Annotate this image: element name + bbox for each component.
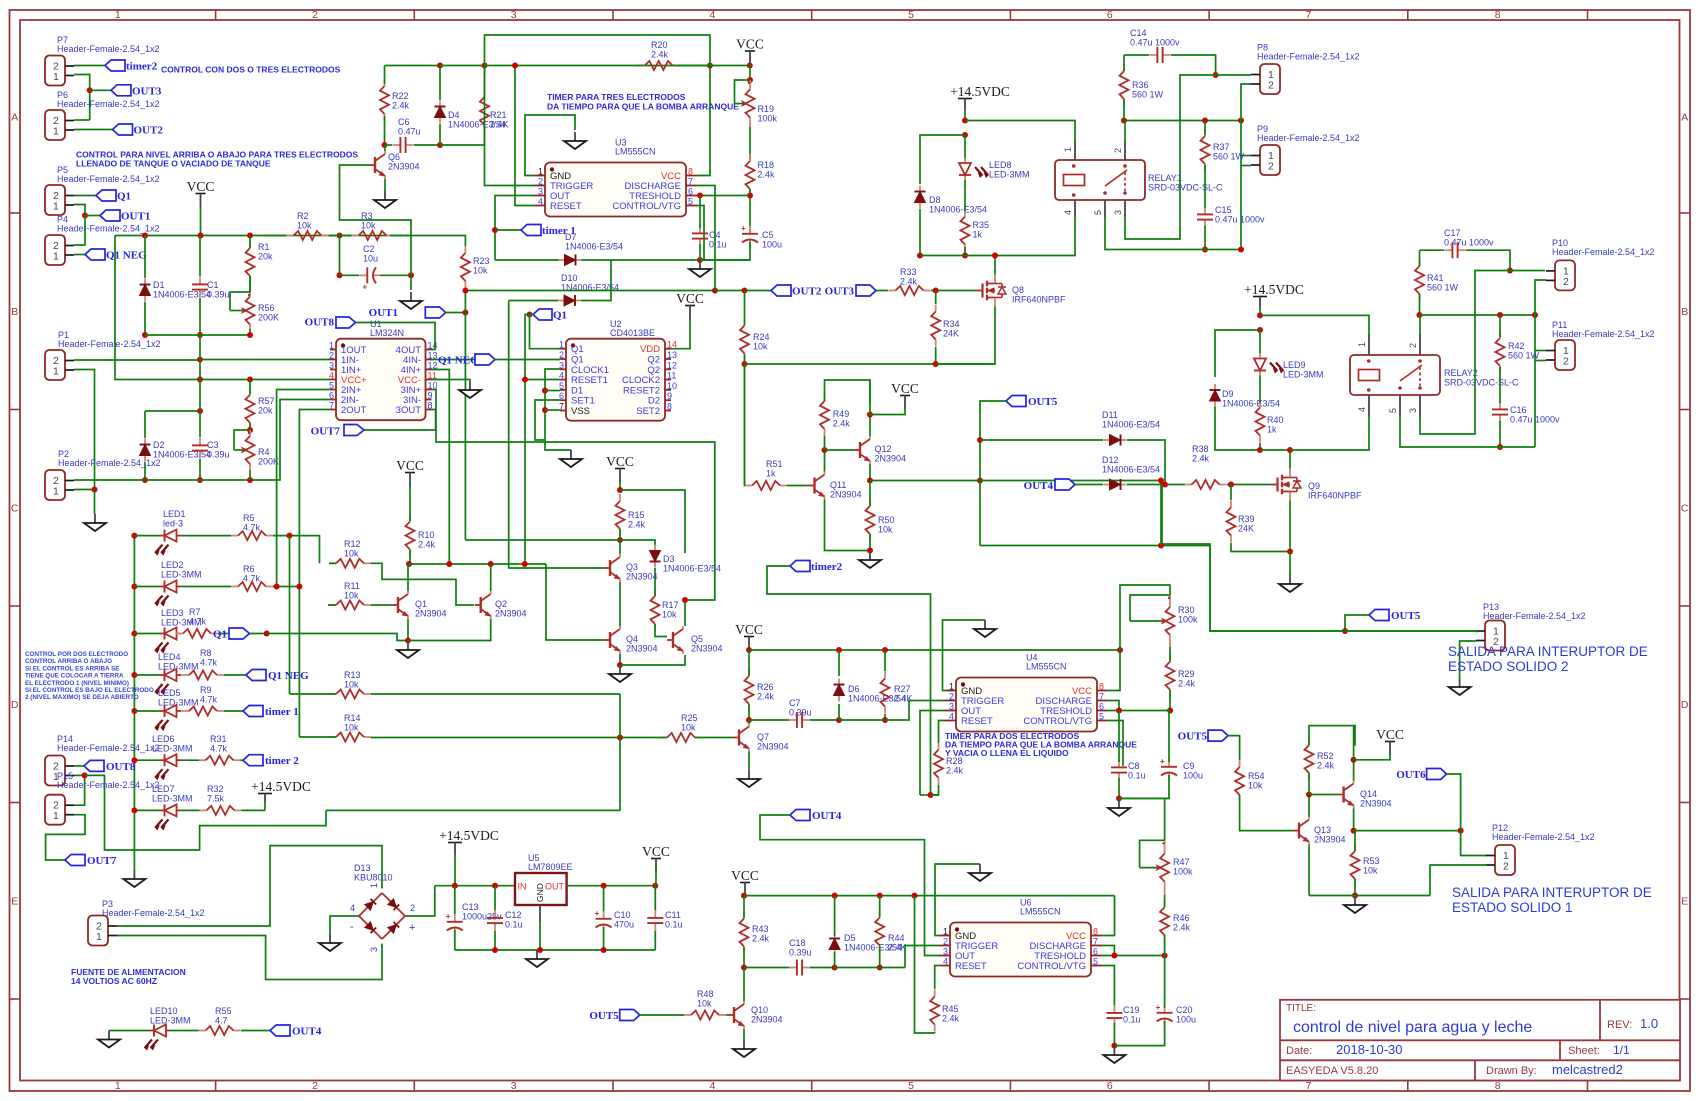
- svg-text:4: 4: [709, 9, 715, 21]
- svg-text:CD4013BE: CD4013BE: [610, 328, 655, 338]
- node junction: [131, 708, 137, 714]
- svg-text:1: 1: [53, 251, 59, 263]
- svg-text:2: 2: [1408, 343, 1418, 348]
- wire: [264, 235, 286, 237]
- net flag OUT5: [1006, 396, 1026, 407]
- wire power net right: [326, 809, 620, 811]
- svg-text:470u: 470u: [614, 920, 634, 930]
- svg-text:R21: R21: [490, 110, 507, 120]
- svg-text:6: 6: [688, 187, 693, 197]
- svg-text:2N3904: 2N3904: [757, 742, 789, 752]
- svg-text:OUT2: OUT2: [792, 286, 822, 298]
- svg-text:2: 2: [559, 350, 564, 360]
- node junction: [197, 332, 203, 338]
- wire: [182, 535, 232, 537]
- node junction: [1532, 312, 1538, 318]
- svg-text:SRD-03VDC-SL-C: SRD-03VDC-SL-C: [1444, 378, 1519, 388]
- svg-text:Q1 NEG: Q1 NEG: [438, 354, 479, 366]
- wire: [1476, 631, 1478, 633]
- node junction: [832, 965, 838, 971]
- ground: [619, 665, 621, 674]
- ground: [574, 132, 576, 141]
- wire: [1308, 845, 1310, 896]
- wire: [748, 704, 750, 720]
- wire: [1241, 155, 1251, 157]
- svg-text:20k: 20k: [258, 252, 273, 262]
- svg-text:2: 2: [1563, 356, 1569, 368]
- wire: [1353, 726, 1355, 760]
- svg-text:5: 5: [1099, 712, 1104, 722]
- wire: [939, 721, 946, 744]
- svg-text:4: 4: [329, 371, 334, 381]
- ground: [410, 292, 412, 301]
- node junction: [1507, 268, 1513, 274]
- wire: [1241, 84, 1251, 250]
- svg-text:10k: 10k: [473, 266, 488, 276]
- svg-text:0.47u 1000v: 0.47u 1000v: [1215, 215, 1265, 225]
- wire: [743, 947, 745, 968]
- wire: [494, 886, 496, 910]
- wire P14 pin1: [74, 775, 85, 805]
- svg-text:Q8: Q8: [1012, 285, 1024, 295]
- svg-text:Header-Female-2.54_1x2: Header-Female-2.54_1x2: [1483, 611, 1586, 621]
- wire: [1499, 315, 1501, 337]
- wire: [1259, 330, 1261, 354]
- timer U4 LM555CN: [956, 678, 1097, 732]
- svg-text:1k: 1k: [766, 469, 776, 479]
- wire U2 vss: [545, 409, 560, 411]
- node junction: [742, 361, 748, 367]
- svg-text:3: 3: [511, 9, 517, 21]
- wire: [1127, 440, 1165, 485]
- svg-text:Q1 NEG: Q1 NEG: [268, 670, 309, 682]
- wire: [371, 604, 392, 606]
- svg-text:2: 2: [949, 692, 954, 702]
- wire: [1075, 484, 1103, 486]
- svg-text:5: 5: [908, 1080, 914, 1092]
- wire: [619, 654, 621, 665]
- svg-text:C8: C8: [1128, 761, 1140, 771]
- net flag Q1 NEG mid: [432, 359, 476, 361]
- wire: [241, 759, 244, 761]
- node junction: [741, 965, 747, 971]
- svg-text:EL ELECTRODO 1 (NIVEL MINIMO): EL ELECTRODO 1 (NIVEL MINIMO): [25, 680, 129, 687]
- wire: [1169, 690, 1171, 711]
- node junction: [1116, 708, 1122, 714]
- net flag Q1 top: [533, 309, 552, 320]
- svg-text:7: 7: [1306, 1080, 1312, 1092]
- wire: [749, 189, 751, 234]
- wire out4 y795: [920, 794, 931, 796]
- wire U4 out pin3: [920, 711, 945, 796]
- svg-text:C18: C18: [789, 938, 806, 948]
- wire: [74, 129, 113, 131]
- node junction: [836, 647, 842, 653]
- node junction: [1202, 118, 1208, 124]
- wire: [224, 710, 243, 712]
- wire: [74, 75, 90, 121]
- svg-text:6: 6: [329, 391, 334, 401]
- svg-text:R38: R38: [1192, 444, 1209, 454]
- svg-text:9: 9: [667, 391, 672, 401]
- wire: [1353, 760, 1355, 781]
- svg-text:Q1 NEG: Q1 NEG: [106, 250, 147, 262]
- svg-text:R28: R28: [946, 756, 963, 766]
- wire U3 pin5 jog: [697, 206, 704, 261]
- svg-text:C20: C20: [1176, 1005, 1193, 1015]
- wire: [715, 290, 745, 292]
- wire U6 pin8: [1102, 896, 1115, 936]
- node junction: [747, 77, 753, 83]
- wire: [744, 364, 746, 485]
- wire: [1308, 795, 1310, 817]
- wire OUT4 route to U6 out: [760, 815, 939, 956]
- op-amp U1 LM324N: [336, 339, 426, 421]
- node junction: [1257, 327, 1263, 333]
- ground: [329, 934, 331, 943]
- svg-text:4: 4: [943, 957, 948, 967]
- svg-text:1N4006-E3/54: 1N4006-E3/54: [1102, 420, 1160, 430]
- node junction: [617, 487, 623, 493]
- wire: [934, 1032, 936, 1033]
- svg-text:EASYEDA V5.8.20: EASYEDA V5.8.20: [1286, 1065, 1378, 1077]
- wire loop: [824, 433, 826, 450]
- svg-text:560 1W: 560 1W: [1508, 351, 1540, 361]
- svg-text:10k: 10k: [344, 591, 359, 601]
- wire: [603, 886, 605, 911]
- svg-text:B: B: [1681, 306, 1688, 318]
- wire pin7 U3 down: [697, 186, 715, 291]
- svg-text:A: A: [1681, 112, 1688, 124]
- svg-text:Header-Female-2.54_1x2: Header-Female-2.54_1x2: [102, 908, 205, 918]
- node junction: [962, 118, 968, 124]
- wire source Q9: [1289, 501, 1291, 552]
- relay pin 4: [1074, 200, 1076, 218]
- svg-text:C2: C2: [363, 244, 375, 254]
- wire vcc stem: [200, 207, 202, 236]
- relay2 pin 2: [1419, 334, 1421, 355]
- wire: [74, 254, 85, 256]
- node junction: [198, 233, 204, 239]
- svg-text:C5: C5: [762, 230, 774, 240]
- net flag OUT5 p13: [1369, 610, 1389, 621]
- wire: [267, 634, 408, 641]
- svg-text:C17: C17: [1444, 228, 1461, 238]
- wire pin12 down to rail: [432, 370, 450, 565]
- svg-text:10k: 10k: [681, 723, 696, 733]
- svg-text:2.4k: 2.4k: [418, 540, 436, 550]
- svg-text:LM7809EE: LM7809EE: [528, 862, 573, 872]
- ground: [1113, 1046, 1115, 1055]
- svg-text:0.1u: 0.1u: [1128, 771, 1146, 781]
- svg-text:2N3904: 2N3904: [1314, 835, 1346, 845]
- relay2 pin 4: [1368, 395, 1370, 417]
- wire base Q6: [340, 165, 412, 236]
- wire U2 set1: [535, 400, 560, 440]
- svg-text:LED-3MM: LED-3MM: [1283, 370, 1324, 380]
- svg-text:RELAY1: RELAY1: [1148, 173, 1182, 183]
- svg-text:OUT8: OUT8: [305, 317, 335, 329]
- wire: [748, 720, 750, 724]
- svg-text:10: 10: [667, 381, 677, 391]
- svg-text:0.1u: 0.1u: [1123, 1015, 1141, 1025]
- wire Q1 net down: [525, 315, 530, 321]
- svg-text:1: 1: [1357, 342, 1367, 347]
- svg-text:2N3904: 2N3904: [691, 644, 723, 654]
- node junction: [131, 672, 137, 678]
- svg-text:VCC: VCC: [642, 844, 670, 859]
- svg-text:TIMER PARA TRES ELECTRODOS: TIMER PARA TRES ELECTRODOS: [547, 92, 686, 102]
- svg-text:R54: R54: [1248, 771, 1265, 781]
- svg-text:1/1: 1/1: [1613, 1043, 1630, 1057]
- svg-text:R15: R15: [628, 510, 645, 520]
- wire: [699, 244, 701, 260]
- svg-text:R18: R18: [758, 160, 775, 170]
- wire: [90, 89, 111, 91]
- net flag timer2 mid: [790, 561, 810, 572]
- net flag OUT7 p15: [65, 855, 85, 866]
- svg-text:2.4k: 2.4k: [1317, 761, 1335, 771]
- node junction: [867, 548, 873, 554]
- wire: [1119, 797, 1169, 799]
- svg-text:R42: R42: [1508, 341, 1525, 351]
- wire: [440, 65, 485, 67]
- svg-text:1: 1: [943, 927, 948, 937]
- wire: [879, 946, 881, 968]
- wire pin10 route: [432, 390, 715, 601]
- wire: [1354, 754, 1390, 760]
- net flag timer 1 row5: [243, 706, 263, 717]
- node junction: [247, 233, 253, 239]
- wire: [134, 710, 159, 712]
- node junction: [1158, 478, 1164, 484]
- svg-text:2N3904: 2N3904: [388, 162, 420, 172]
- wire: [340, 274, 360, 276]
- node junction: [1162, 953, 1168, 959]
- wire: [409, 485, 411, 521]
- net flag timer2: [105, 60, 125, 71]
- wire: [1160, 481, 1162, 546]
- svg-text:4.7k: 4.7k: [210, 744, 228, 754]
- wire relay1 net B: [1124, 120, 1241, 122]
- wire: [931, 290, 977, 292]
- ground: [979, 864, 981, 873]
- wire Q12 emitter line: [870, 480, 980, 482]
- node junction: [977, 478, 983, 484]
- node junction: [1116, 795, 1122, 801]
- node junction: [1417, 312, 1423, 318]
- svg-text:Q12: Q12: [875, 444, 892, 454]
- svg-text:R50: R50: [878, 515, 895, 525]
- svg-text:1: 1: [53, 810, 59, 822]
- svg-text:C9: C9: [1183, 761, 1195, 771]
- svg-text:VCC: VCC: [891, 381, 919, 396]
- wire: [1119, 775, 1169, 798]
- svg-text:5: 5: [688, 197, 693, 207]
- wire: [329, 562, 336, 564]
- wire: [199, 335, 201, 380]
- wire: [876, 290, 888, 292]
- wire: [171, 1030, 199, 1032]
- wire: [249, 380, 251, 395]
- svg-text:2N3904: 2N3904: [415, 609, 447, 619]
- node junction: [247, 377, 253, 383]
- net flag OUT4 bottom: [790, 810, 810, 821]
- wire discharge U4: [1108, 701, 1119, 711]
- svg-text:1k: 1k: [1267, 425, 1277, 435]
- svg-text:TITLE:: TITLE:: [1286, 1003, 1316, 1014]
- node junction: [746, 717, 752, 723]
- svg-text:LED9: LED9: [1283, 360, 1306, 370]
- svg-text:9: 9: [428, 391, 433, 401]
- wire source Q8: [936, 307, 995, 365]
- wire discharge U6: [1102, 946, 1114, 956]
- svg-text:OUT7: OUT7: [311, 426, 341, 438]
- svg-text:C: C: [11, 503, 19, 515]
- wire: [385, 144, 393, 146]
- svg-text:SALIDA PARA INTERUPTOR DE: SALIDA PARA INTERUPTOR DE: [1452, 885, 1652, 900]
- wire: [869, 534, 871, 551]
- svg-text:2: 2: [312, 9, 318, 21]
- svg-text:1: 1: [53, 71, 59, 83]
- svg-text:7.5k: 7.5k: [207, 794, 225, 804]
- svg-text:Q1: Q1: [117, 191, 131, 203]
- wire: [935, 291, 937, 305]
- wire collector Q6: [384, 145, 386, 151]
- wire: [654, 870, 657, 886]
- svg-text:2: 2: [943, 937, 948, 947]
- svg-text:R36: R36: [1132, 80, 1149, 90]
- wire: [1260, 449, 1290, 451]
- wire: [144, 462, 146, 480]
- svg-text:1: 1: [329, 341, 334, 351]
- svg-text:R26: R26: [757, 682, 774, 692]
- svg-text:B: B: [11, 306, 18, 318]
- svg-text:2N3904: 2N3904: [626, 644, 658, 654]
- node junction: [542, 388, 548, 394]
- svg-text:D13: D13: [354, 863, 371, 873]
- svg-text:+14.5VDC: +14.5VDC: [439, 828, 499, 843]
- svg-text:Q13: Q13: [1314, 825, 1331, 835]
- svg-text:Y VACIA O LLENA EL LIQUIDO: Y VACIA O LLENA EL LIQUIDO: [945, 748, 1069, 758]
- wire: [1124, 54, 1149, 56]
- svg-text:ESTADO SOLIDO 2: ESTADO SOLIDO 2: [1448, 659, 1569, 674]
- svg-text:CONTROL/VTG: CONTROL/VTG: [1023, 716, 1092, 727]
- wire: [684, 600, 686, 626]
- wire: [1216, 74, 1251, 76]
- svg-text:20k: 20k: [258, 406, 273, 416]
- wire: [134, 809, 159, 811]
- node junction: [537, 947, 543, 953]
- svg-text:1000u25v: 1000u25v: [462, 912, 502, 922]
- svg-text:+: +: [363, 282, 368, 291]
- svg-text:R23: R23: [473, 256, 490, 266]
- wire: [1227, 484, 1272, 486]
- svg-text:0.47u: 0.47u: [398, 127, 421, 137]
- svg-text:CONTROL/VTG: CONTROL/VTG: [1017, 961, 1086, 972]
- node junction: [928, 792, 934, 798]
- wire bridge plus: [405, 886, 435, 916]
- svg-text:6: 6: [1093, 947, 1098, 957]
- node junction: [912, 893, 918, 899]
- svg-text:Header-Female-2.54_1x2: Header-Female-2.54_1x2: [1257, 52, 1360, 62]
- svg-text:timer2: timer2: [126, 61, 158, 73]
- wire Q14 base: [1309, 794, 1338, 796]
- ground: [536, 950, 538, 959]
- svg-text:RESET: RESET: [550, 201, 582, 212]
- svg-text:+14.5VDC: +14.5VDC: [950, 84, 1010, 99]
- wire to P12 pin1: [1461, 831, 1487, 856]
- wire: [1354, 879, 1356, 896]
- wire relay2 bottom: [1400, 417, 1535, 447]
- wire: [710, 65, 750, 67]
- svg-text:1N4006-E3/54: 1N4006-E3/54: [663, 564, 721, 574]
- wire: [884, 650, 886, 671]
- wire: [1113, 1023, 1115, 1046]
- svg-text:2018-10-30: 2018-10-30: [1336, 1042, 1403, 1057]
- wire: [249, 276, 251, 292]
- title block: [1280, 1000, 1680, 1081]
- wire trigger pin2: [485, 66, 535, 186]
- node junction: [247, 477, 253, 483]
- svg-text:7: 7: [1093, 937, 1098, 947]
- wire gnd loop U4: [943, 620, 986, 691]
- node junction: [492, 883, 498, 889]
- wire: [749, 64, 751, 80]
- svg-text:R45: R45: [942, 1004, 959, 1014]
- svg-text:200K: 200K: [258, 313, 279, 323]
- node junction: [1306, 792, 1312, 798]
- wire: [134, 535, 159, 537]
- svg-text:R24: R24: [753, 332, 770, 342]
- svg-text:1: 1: [949, 682, 954, 692]
- ground: [869, 551, 871, 560]
- wire P2 pin1: [74, 489, 95, 491]
- wire: [1309, 726, 1355, 746]
- svg-text:+14.5VDC: +14.5VDC: [251, 779, 311, 794]
- wire: [1204, 165, 1206, 208]
- ground: [984, 620, 986, 629]
- wire: [199, 236, 201, 277]
- svg-text:2: 2: [538, 177, 543, 187]
- wire: [74, 119, 90, 121]
- svg-text:R39: R39: [1238, 514, 1255, 524]
- svg-text:1: 1: [369, 883, 379, 888]
- wire: [241, 1030, 270, 1032]
- wire: [440, 127, 485, 145]
- node junction: [1228, 482, 1234, 488]
- svg-text:timer2: timer2: [811, 561, 843, 573]
- wire: [385, 65, 441, 67]
- wire: [699, 196, 701, 229]
- svg-text:1: 1: [1063, 147, 1073, 152]
- svg-text:2: 2: [329, 351, 334, 361]
- node junction: [492, 947, 498, 953]
- relay RELAY1 SRD-03VDC-SL-C: [1055, 160, 1145, 200]
- wire: [249, 236, 251, 249]
- node junction: [512, 63, 518, 69]
- svg-text:IRF640NPBF: IRF640NPBF: [1012, 295, 1066, 305]
- wire P12 pin2: [1430, 865, 1487, 896]
- wire: [94, 490, 96, 515]
- svg-text:2.4k: 2.4k: [628, 520, 646, 530]
- wire: [182, 809, 200, 811]
- node junction: [617, 735, 623, 741]
- node junction: [437, 63, 443, 69]
- wire OUT2 line: [465, 290, 715, 292]
- svg-text:R32: R32: [207, 784, 224, 794]
- node junction: [131, 807, 137, 813]
